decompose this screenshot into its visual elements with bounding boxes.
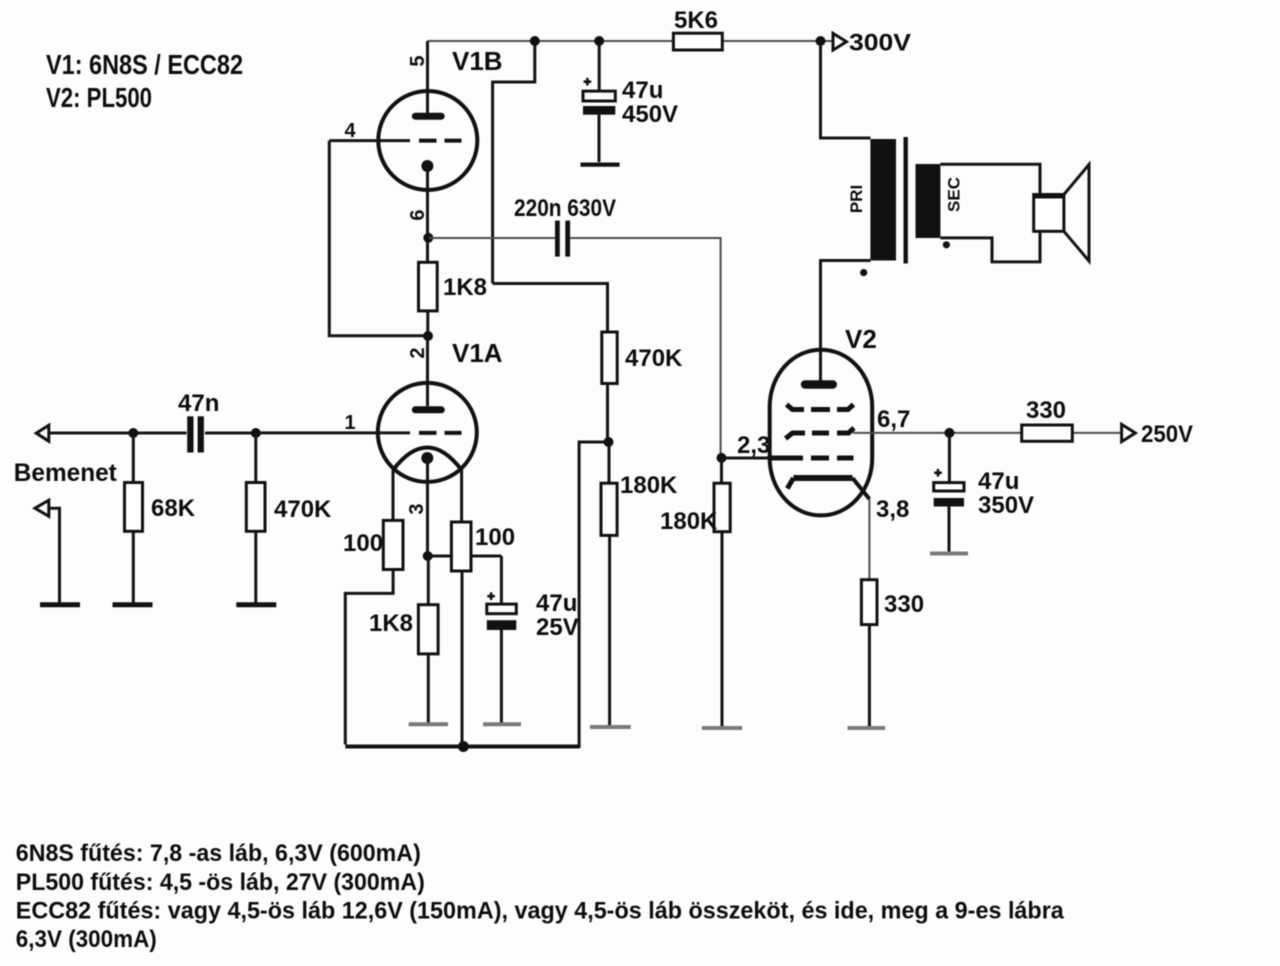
wire: V2 cathode drop bbox=[868, 499, 870, 580]
ground: under 180K left bbox=[590, 725, 631, 729]
resistor 100 (right) bbox=[451, 522, 515, 746]
resistor 330 (cathode) bbox=[861, 580, 924, 726]
svg-text:68K: 68K bbox=[151, 495, 196, 522]
ground: input 2 bbox=[40, 602, 80, 607]
resistor 470K (input) bbox=[246, 433, 332, 603]
wire: top B+ rail bbox=[428, 40, 834, 42]
node: input junction 1 bbox=[128, 428, 138, 438]
capacitor 47u 450V bbox=[583, 77, 678, 162]
resistor 68K bbox=[125, 433, 196, 603]
node: input junction 2 bbox=[251, 428, 261, 438]
wire: rail to C450 bbox=[598, 41, 601, 91]
svg-text:100: 100 bbox=[475, 524, 515, 551]
svg-text:5: 5 bbox=[407, 55, 429, 66]
wire: hum rail riser to divider bbox=[579, 442, 607, 748]
svg-text:Bemenet: Bemenet bbox=[14, 459, 118, 487]
svg-text:450V: 450V bbox=[622, 101, 678, 128]
svg-text:2: 2 bbox=[407, 347, 429, 358]
svg-text:1K8: 1K8 bbox=[443, 274, 487, 301]
svg-text:V2: PL500: V2: PL500 bbox=[46, 82, 152, 113]
svg-text:3: 3 bbox=[406, 503, 428, 514]
ground: under 1K8 bbox=[409, 722, 448, 726]
svg-text:330: 330 bbox=[1026, 397, 1066, 424]
wire: V1B grid feedback path bbox=[329, 141, 428, 336]
svg-text:5K6: 5K6 bbox=[674, 7, 718, 34]
svg-text:V2: V2 bbox=[845, 324, 877, 354]
ground: under 330 cathode bbox=[848, 726, 886, 730]
svg-text:2,3: 2,3 bbox=[737, 432, 770, 459]
capacitor 47u 25V bbox=[487, 590, 579, 723]
net: 300V arrow bbox=[833, 30, 911, 57]
svg-text:6,3V (300mA): 6,3V (300mA) bbox=[16, 926, 157, 953]
svg-text:250V: 250V bbox=[1141, 421, 1193, 448]
wire: secondary bottom to speaker bbox=[940, 231, 1040, 262]
svg-text:V1: 6N8S / ECC82: V1: 6N8S / ECC82 bbox=[46, 49, 243, 80]
wire: heater hum rail bbox=[345, 745, 579, 749]
svg-text:180K: 180K bbox=[620, 472, 678, 499]
svg-text:47u: 47u bbox=[536, 590, 577, 617]
node: screen junction bbox=[944, 428, 954, 438]
transformer phase dot primary bbox=[860, 269, 867, 276]
node: pin6 junction bbox=[423, 233, 433, 243]
tube triode V1B bbox=[329, 46, 502, 262]
wire: V2 screen to 250V line bbox=[853, 432, 1120, 434]
wire: V1B plate to rail bbox=[426, 41, 429, 113]
wire: junction to V2 grid bbox=[722, 457, 771, 460]
resistor 330 (screen) bbox=[1022, 397, 1073, 441]
svg-text:330: 330 bbox=[884, 591, 924, 618]
resistor 180K (V2 grid) bbox=[660, 458, 730, 726]
resistor 1K8 (V1B cathode) bbox=[419, 262, 488, 336]
svg-text:350V: 350V bbox=[978, 492, 1034, 519]
capacitor 220n 630V bbox=[429, 195, 721, 455]
svg-text:47u: 47u bbox=[978, 468, 1019, 495]
svg-text:4: 4 bbox=[344, 120, 356, 142]
wire: heater leg left bbox=[392, 469, 395, 520]
svg-text:3,8: 3,8 bbox=[876, 496, 909, 523]
ground: under 47u 450V bbox=[581, 163, 620, 167]
ground: under 180K right bbox=[702, 726, 742, 730]
transformer phase dot secondary bbox=[943, 241, 950, 248]
resistor 1K8 (V1A cathode) bbox=[369, 556, 438, 723]
node: 300V junction bbox=[816, 36, 826, 46]
svg-text:PRI: PRI bbox=[847, 185, 866, 213]
speaker bbox=[1034, 165, 1089, 262]
ground: under 47u 350V bbox=[930, 552, 968, 556]
node: pin2 junction bbox=[423, 331, 433, 341]
net: 250V arrow bbox=[1122, 421, 1193, 448]
node: rail junction A bbox=[530, 36, 540, 46]
svg-text:470K: 470K bbox=[274, 496, 332, 523]
svg-text:25V: 25V bbox=[536, 614, 579, 641]
node: V2 grid junction bbox=[717, 453, 727, 463]
resistor 5K6 bbox=[673, 7, 722, 50]
wire: junction to 470K divider top bbox=[493, 284, 608, 333]
node: V1A cathode junction bbox=[423, 551, 433, 561]
node: hum rail junction bbox=[458, 741, 469, 752]
ground: under 68K bbox=[113, 602, 153, 607]
svg-text:100: 100 bbox=[343, 530, 383, 557]
svg-text:1: 1 bbox=[344, 412, 355, 434]
node: divider junction bbox=[604, 437, 614, 447]
node: rail junction B bbox=[594, 36, 604, 46]
svg-text:47u: 47u bbox=[622, 77, 663, 104]
note: heater info text bbox=[16, 840, 1065, 953]
wire: primary bottom to V2 plate bbox=[821, 261, 871, 381]
resistor 100 (left) bbox=[343, 520, 403, 744]
svg-text:6N8S fűtés: 7,8 -as láb, 6,3V: 6N8S fűtés: 7,8 -as láb, 6,3V (600mA) bbox=[16, 840, 421, 867]
svg-text:470K: 470K bbox=[625, 345, 683, 372]
svg-text:47n: 47n bbox=[178, 390, 219, 417]
capacitor 47u 350V bbox=[934, 433, 1034, 552]
tube pentode V2 bbox=[770, 324, 877, 515]
net: input arrow 1 bbox=[36, 425, 49, 441]
capacitor 47n bbox=[178, 390, 219, 453]
note: tube types text bbox=[46, 49, 243, 113]
svg-text:220n 630V: 220n 630V bbox=[514, 195, 616, 222]
ground: under 47u 25V bbox=[483, 722, 521, 726]
wire: input line bbox=[49, 432, 261, 435]
wire: 300V to transformer primary top bbox=[821, 41, 871, 138]
transformer secondary winding SEC bbox=[916, 164, 964, 238]
resistor 470K (divider) bbox=[602, 332, 683, 442]
svg-text:1K8: 1K8 bbox=[369, 610, 413, 637]
svg-text:V1B: V1B bbox=[452, 46, 503, 76]
svg-text:PL500 fűtés: 4,5 -ös láb, 27V: PL500 fűtés: 4,5 -ös láb, 27V (300mA) bbox=[16, 869, 425, 896]
net: input arrow 2 bbox=[35, 500, 60, 603]
wire: cathode junction to bypass cap bbox=[428, 556, 502, 604]
svg-text:SEC: SEC bbox=[945, 177, 964, 212]
transformer primary winding PRI bbox=[847, 139, 896, 261]
wire: rail drop to grid network bbox=[493, 41, 535, 284]
svg-text:V1A: V1A bbox=[452, 338, 503, 368]
wire: secondary top to speaker bbox=[940, 164, 1040, 194]
svg-text:180K: 180K bbox=[660, 508, 718, 535]
resistor 180K (left) bbox=[601, 442, 678, 725]
svg-text:6,7: 6,7 bbox=[877, 406, 910, 433]
svg-text:ECC82 fűtés: vagy 4,5-ös láb 1: ECC82 fűtés: vagy 4,5-ös láb 12,6V (150m… bbox=[16, 898, 1065, 925]
ground: under 470K input bbox=[236, 602, 276, 607]
svg-text:300V: 300V bbox=[849, 30, 911, 57]
svg-text:6: 6 bbox=[407, 209, 429, 220]
tube triode V1A bbox=[261, 336, 503, 556]
transformer core bbox=[904, 137, 908, 264]
wire: heater leg right bbox=[460, 469, 463, 522]
